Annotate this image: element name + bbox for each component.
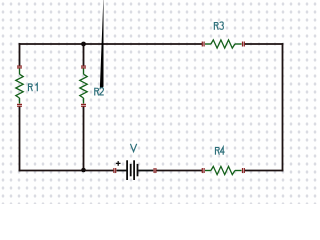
resistor R4 — [202, 166, 245, 174]
wire top-right horizontal segment (R3 to right corner) — [244, 43, 283, 45]
label R3 — [214, 22, 223, 30]
wire bottom-right horizontal segment (R4 to right corner) — [244, 170, 283, 172]
label V — [130, 144, 136, 152]
wire right vertical (top-right corner to bottom-right corner) — [282, 43, 284, 171]
resistor R1 — [16, 66, 23, 107]
wire bottom-middle horizontal segment (battery to R4) — [156, 170, 202, 172]
wire R2 branch lower (R2 to bottom junction) — [83, 106, 85, 170]
label R1 — [28, 0, 37, 91]
node junction dot bottom (R2 to bottom wire) — [81, 168, 86, 173]
plus polarity mark — [116, 161, 121, 166]
label R4 — [215, 147, 224, 155]
wire R2 branch upper (top junction to R2) — [83, 44, 85, 66]
resistor R2 — [80, 66, 87, 107]
wire bottom-left horizontal segment (left corner to battery) — [19, 170, 114, 172]
wire top-left horizontal segment (top wire from left corner to R3) — [19, 43, 202, 45]
wire left vertical upper segment (top-left corner to R1) — [19, 43, 21, 66]
node junction dot top (R2 to top wire) — [81, 42, 86, 47]
battery V (DC source) — [113, 160, 156, 180]
wire left vertical lower segment (R1 to bottom-left corner) — [19, 106, 21, 171]
resistor R3 — [202, 40, 245, 48]
label R2 — [95, 0, 104, 95]
